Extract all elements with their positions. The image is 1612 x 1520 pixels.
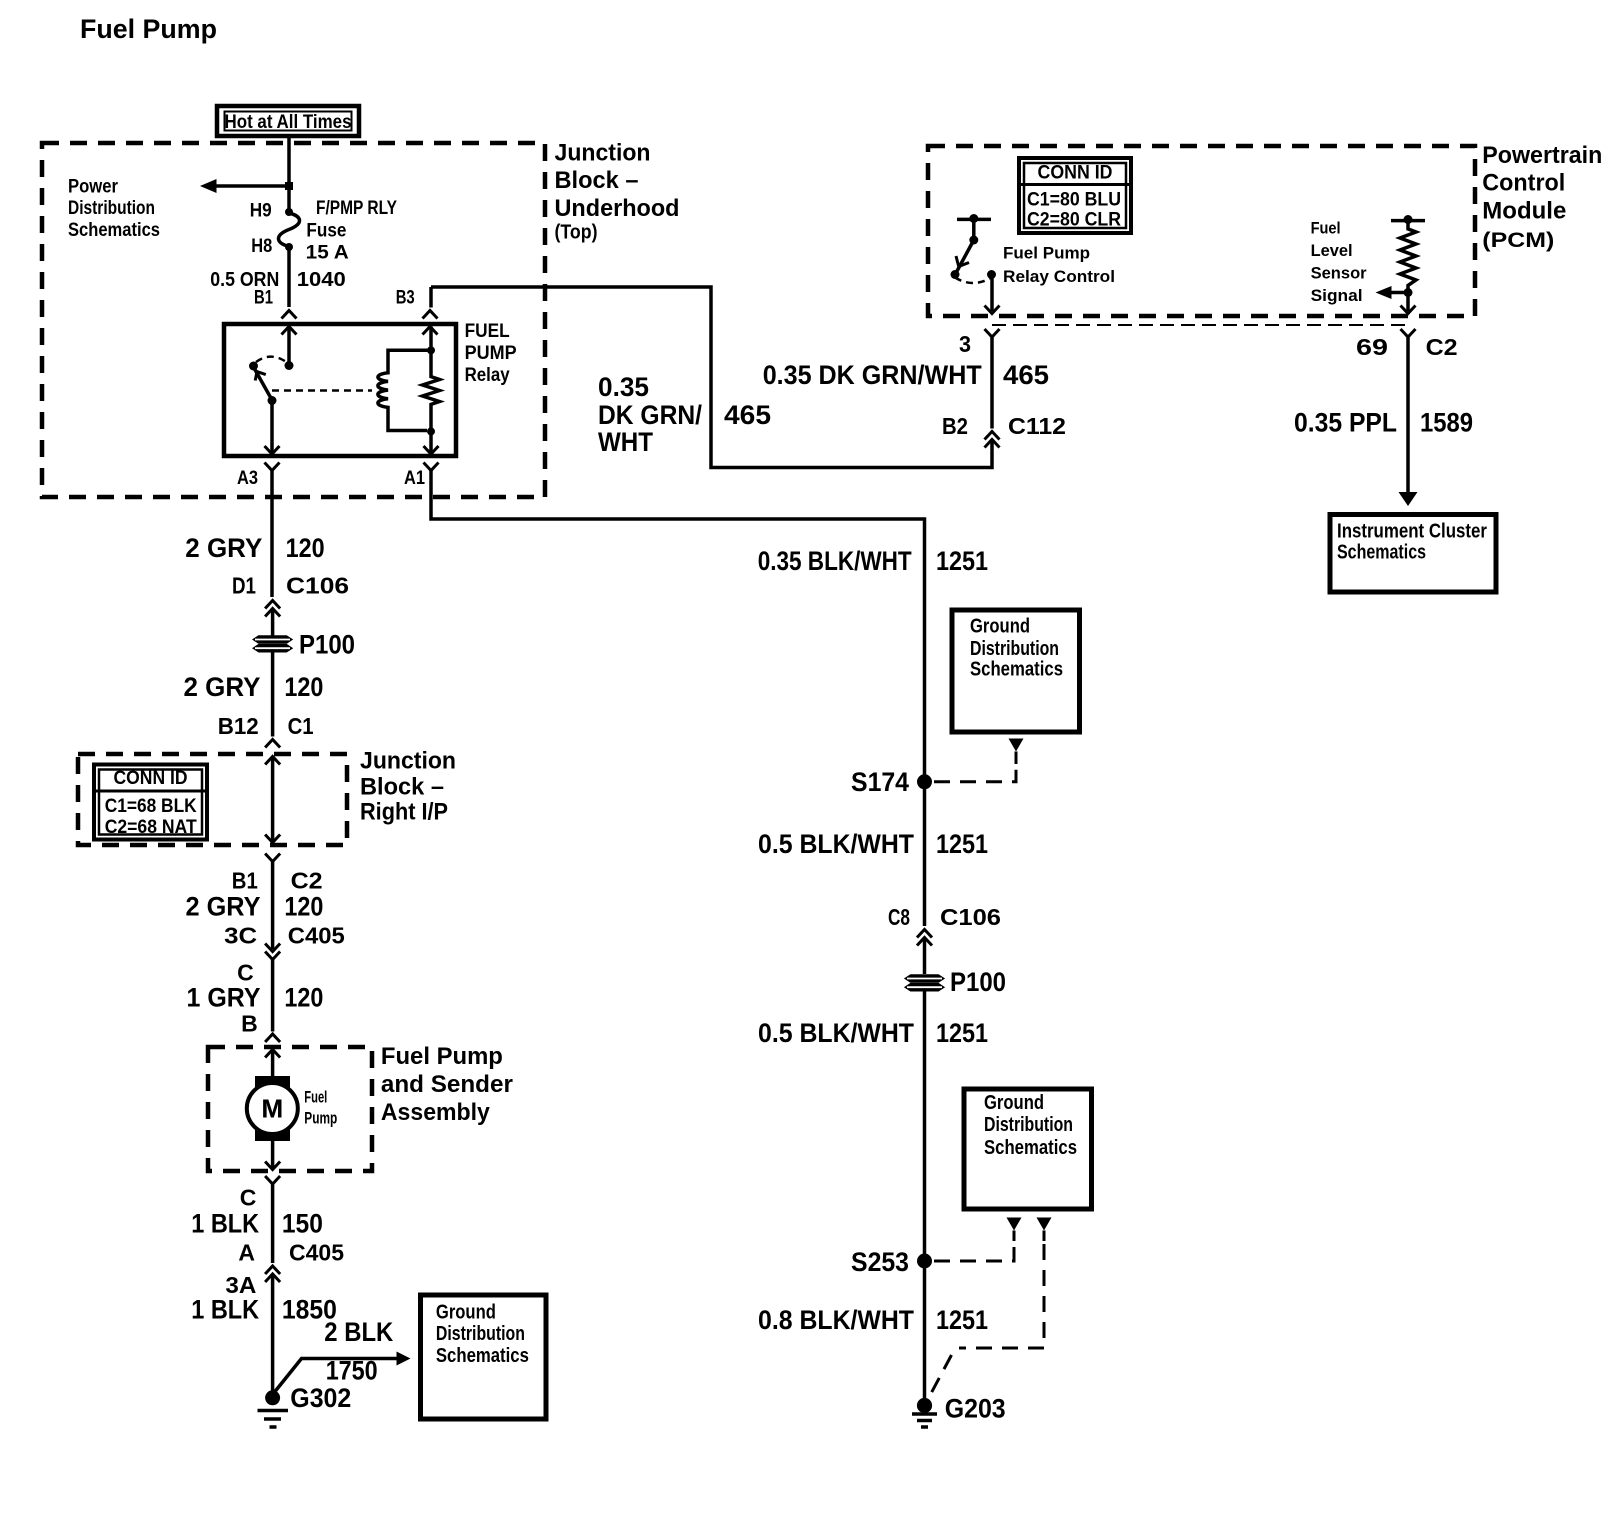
svg-text:Sensor: Sensor [1311,263,1367,282]
svg-text:Ground: Ground [970,616,1030,638]
svg-text:(Top): (Top) [555,222,598,244]
svg-text:M: M [261,1094,283,1124]
svg-text:Underhood: Underhood [555,195,680,222]
svg-text:1589: 1589 [1420,407,1473,437]
svg-text:(PCM): (PCM) [1482,229,1554,252]
svg-text:Distribution: Distribution [984,1114,1073,1136]
svg-text:2 GRY: 2 GRY [186,892,261,922]
svg-text:C106: C106 [286,572,349,598]
svg-text:Fuel: Fuel [1311,219,1341,238]
svg-text:Schematics: Schematics [68,220,160,241]
svg-text:1750: 1750 [326,1356,378,1386]
svg-text:1251: 1251 [936,1018,988,1048]
svg-text:S253: S253 [851,1247,909,1277]
svg-text:C: C [240,1184,257,1210]
svg-text:C2: C2 [1426,334,1458,360]
svg-text:1251: 1251 [936,1305,988,1335]
svg-text:H8: H8 [251,236,272,257]
svg-text:PUMP: PUMP [465,343,517,364]
svg-text:Fuel Pump: Fuel Pump [80,14,217,44]
svg-text:69: 69 [1356,334,1388,360]
svg-text:Fuel Pump: Fuel Pump [1003,244,1090,263]
svg-text:15 A: 15 A [306,243,349,264]
svg-text:Ground: Ground [436,1301,496,1323]
svg-text:Assembly: Assembly [381,1099,491,1126]
svg-text:Junction: Junction [555,139,651,166]
svg-text:Powertrain: Powertrain [1482,142,1602,169]
svg-text:1251: 1251 [936,829,988,859]
svg-text:120: 120 [286,533,325,563]
svg-text:Control: Control [1482,170,1565,197]
svg-text:A1: A1 [404,468,425,489]
svg-text:C1=80 BLU: C1=80 BLU [1027,190,1121,211]
svg-text:Schematics: Schematics [970,659,1063,681]
svg-text:Distribution: Distribution [970,638,1059,660]
svg-text:Instrument Cluster: Instrument Cluster [1337,521,1487,543]
svg-text:P100: P100 [950,967,1006,997]
svg-text:0.5 BLK/WHT: 0.5 BLK/WHT [758,1018,914,1048]
svg-text:FUEL: FUEL [465,321,510,342]
svg-text:Module: Module [1482,198,1566,225]
svg-text:465: 465 [1003,360,1049,390]
svg-text:150: 150 [282,1208,323,1238]
svg-text:H9: H9 [250,201,272,222]
svg-text:2 BLK: 2 BLK [324,1317,393,1347]
svg-text:Schematics: Schematics [1337,542,1426,564]
svg-text:WHT: WHT [598,427,653,457]
svg-text:Level: Level [1311,241,1353,260]
svg-text:Fuel: Fuel [304,1088,327,1107]
svg-text:3: 3 [959,331,971,357]
svg-text:F/PMP RLY: F/PMP RLY [316,198,397,219]
svg-text:P100: P100 [299,630,355,660]
svg-text:Schematics: Schematics [984,1137,1077,1159]
svg-text:C2=80 CLR: C2=80 CLR [1027,209,1121,230]
svg-text:Schematics: Schematics [436,1345,529,1367]
svg-text:Fuse: Fuse [306,221,346,242]
svg-text:C405: C405 [288,923,345,949]
svg-text:C2: C2 [291,867,323,893]
svg-text:C8: C8 [888,904,910,930]
svg-text:1040: 1040 [297,269,346,291]
svg-text:Ground: Ground [984,1092,1044,1114]
svg-text:A3: A3 [237,468,258,489]
svg-text:120: 120 [284,983,323,1013]
svg-text:B1: B1 [254,287,273,308]
svg-text:1 BLK: 1 BLK [191,1295,259,1325]
svg-text:1 BLK: 1 BLK [191,1208,259,1238]
svg-text:CONN ID: CONN ID [1038,163,1113,184]
svg-text:1 GRY: 1 GRY [187,983,261,1013]
svg-text:120: 120 [284,892,323,922]
svg-text:Pump: Pump [304,1108,337,1127]
svg-text:Right I/P: Right I/P [360,799,448,826]
svg-text:2 GRY: 2 GRY [184,672,261,702]
svg-text:CONN ID: CONN ID [114,768,188,789]
svg-text:G302: G302 [290,1383,351,1413]
svg-text:B1: B1 [232,867,258,893]
svg-text:S174: S174 [851,767,909,797]
svg-text:C1: C1 [288,713,314,739]
svg-text:1251: 1251 [936,546,988,576]
svg-text:465: 465 [724,400,771,430]
svg-text:0.5 BLK/WHT: 0.5 BLK/WHT [758,829,914,859]
svg-text:A: A [238,1240,255,1266]
svg-text:C405: C405 [289,1240,344,1266]
svg-text:G203: G203 [945,1393,1006,1423]
svg-text:B2: B2 [942,413,968,439]
svg-text:Distribution: Distribution [68,198,155,219]
svg-text:B3: B3 [396,287,415,308]
svg-text:Signal: Signal [1311,286,1363,305]
svg-text:C112: C112 [1008,413,1066,439]
svg-text:DK GRN/: DK GRN/ [598,400,702,430]
svg-text:3C: 3C [224,923,257,949]
svg-text:C1=68 BLK: C1=68 BLK [105,796,197,817]
svg-text:C2=68 NAT: C2=68 NAT [105,817,197,838]
svg-text:Junction: Junction [360,747,456,774]
svg-text:0.35 BLK/WHT: 0.35 BLK/WHT [758,546,912,576]
svg-text:Distribution: Distribution [436,1323,525,1345]
svg-text:Block –: Block – [555,167,639,194]
svg-text:D1: D1 [232,572,256,598]
svg-text:Power: Power [68,177,119,198]
svg-text:120: 120 [284,672,323,702]
svg-text:0.35: 0.35 [598,372,649,402]
svg-text:and Sender: and Sender [381,1071,513,1098]
svg-text:0.35 PPL: 0.35 PPL [1294,407,1397,437]
svg-text:0.35 DK GRN/WHT: 0.35 DK GRN/WHT [763,360,982,390]
svg-text:Block –: Block – [360,774,444,801]
svg-text:Relay: Relay [465,365,510,386]
svg-text:B: B [241,1011,258,1037]
svg-text:C106: C106 [940,904,1001,930]
svg-text:Fuel Pump: Fuel Pump [381,1043,503,1070]
svg-text:Hot at All Times: Hot at All Times [225,112,352,133]
svg-text:2 GRY: 2 GRY [185,533,262,563]
svg-text:Relay Control: Relay Control [1003,267,1115,286]
svg-text:B12: B12 [218,713,259,739]
svg-text:0.8 BLK/WHT: 0.8 BLK/WHT [758,1305,914,1335]
